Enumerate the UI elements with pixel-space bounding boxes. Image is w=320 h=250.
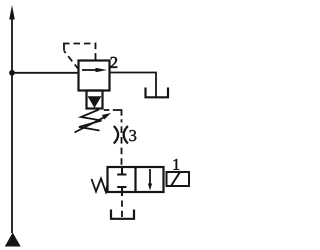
label 3 bbox=[129, 130, 136, 141]
V2 flow path arrow bbox=[82, 68, 107, 72]
V1 solenoid bbox=[167, 172, 190, 186]
V1 blocked port (top T) bbox=[117, 167, 126, 175]
valve V1 body bbox=[108, 167, 164, 192]
V1 divider bbox=[134, 167, 136, 192]
wire: node to relief valve bbox=[12, 72, 79, 74]
wire: main pressure line bbox=[11, 14, 13, 233]
label 1 bbox=[173, 159, 179, 170]
relief valve V2 body bbox=[79, 61, 110, 91]
orifice 3 (right arc) bbox=[124, 126, 128, 144]
V2 adjustable spring bbox=[79, 110, 102, 131]
flow direction arrowhead bbox=[9, 5, 15, 20]
node: junction dot bbox=[9, 70, 15, 76]
label 2 bbox=[111, 57, 118, 68]
V2 pilot line (dashed) internal bbox=[63, 43, 96, 70]
pilot line (dashed) V2 to orifice to V1 bbox=[104, 109, 110, 111]
V2 adjustment arrow bbox=[75, 113, 112, 133]
tank (bottom) bbox=[111, 210, 134, 219]
hydraulic source triangle bbox=[5, 233, 21, 247]
V1 blocked port (bottom T) bbox=[117, 187, 126, 196]
V2 poppet housing bbox=[87, 91, 103, 109]
V2 poppet (filled triangle) bbox=[88, 96, 102, 108]
tank (top right) bbox=[146, 88, 169, 98]
orifice 3 (left arc) bbox=[114, 126, 118, 144]
wire: V2 outlet to tank bbox=[110, 73, 157, 97]
pilot drain (dashed) V1 to tank bbox=[121, 201, 123, 218]
V1 flow arrow (down) bbox=[148, 169, 152, 191]
V1 return spring bbox=[92, 179, 108, 192]
